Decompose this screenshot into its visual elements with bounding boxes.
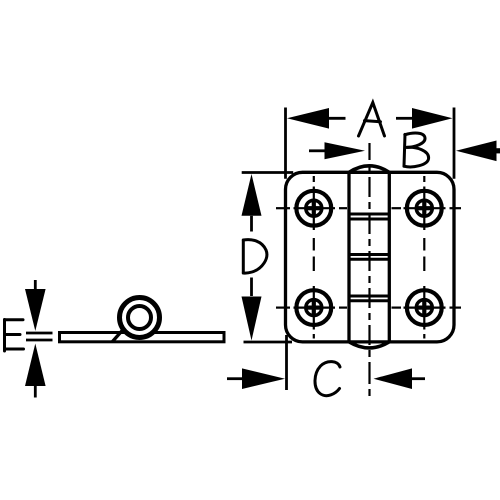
dimension A right extension line [453,108,456,179]
label E [5,320,24,352]
label D [243,240,267,273]
hinge body outline [286,172,455,342]
dimension B right arrow [456,141,500,162]
dimension E up arrow [25,344,46,398]
side view leaf plate [60,333,225,342]
knuckle divider pair 1 [349,214,389,219]
dimension B left arrow [309,142,365,159]
side view curl outer circle [120,298,160,338]
label C [315,362,340,396]
dimension C right arrow [374,368,426,389]
dimension A left extension line [284,108,287,179]
knuckle divider pair 2 [349,255,389,260]
knuckle divider pair 3 [349,296,389,301]
dimension D down arrow [242,278,262,341]
hole column centerline right (dashed) [423,176,425,339]
dimension D bottom extension line [244,341,293,344]
screw hole bottom-left [296,290,331,325]
dimension C left extension line [285,335,288,390]
side view curl transition edge [113,329,125,342]
hinge barrel left line [347,172,350,342]
screw hole top-right [407,191,442,226]
hole column centerline left (dashed) [313,176,315,339]
hole row centerline bottom (dashed) [276,307,461,309]
barrel top knuckle dome [349,166,389,173]
dimension E bottom pointer line [26,339,53,342]
dimension E top pointer line [26,332,53,335]
dimension D top extension line [242,171,294,174]
dimension C left arrow [227,368,285,389]
dimension D up arrow [242,174,262,232]
screw hole top-left [296,191,331,226]
label A [359,103,385,137]
barrel vertical centerline (dashed) [368,143,370,396]
label B [404,133,429,167]
dimension E down arrow [25,280,46,331]
hinge barrel right line [388,172,391,342]
dimension A right arrow [396,108,453,129]
hole row centerline top (dashed) [276,207,461,209]
barrel bottom knuckle dome [349,342,389,348]
dimension A left arrow [287,108,346,129]
side view curl inner circle [128,306,151,329]
screw hole bottom-right [407,290,442,325]
